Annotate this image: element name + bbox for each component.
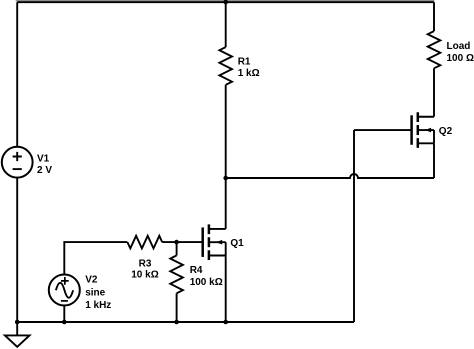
svg-text:Q1: Q1 (230, 238, 244, 249)
wire load bottom to Q2 drain (433, 68, 435, 116)
wire V1 to top rail (16, 2, 18, 147)
resistor R1 (219, 47, 232, 85)
source V1 (2, 147, 33, 178)
wire load top lead (433, 2, 435, 31)
svg-text:R3: R3 (139, 258, 152, 269)
wire Q1 source down (225, 256, 227, 323)
svg-text:R1: R1 (238, 57, 251, 68)
resistor R4 (170, 242, 183, 322)
label V1 2 V (37, 153, 52, 176)
source V2 (49, 275, 80, 306)
svg-text:V2: V2 (85, 275, 98, 286)
label R1 1 kOhm (238, 57, 260, 80)
label Load 100 Ohm (447, 41, 474, 64)
label R4 100 kOhm (190, 265, 223, 288)
junction dot Q1 source bottom (223, 320, 228, 325)
label R3 10 kOhm (131, 258, 158, 280)
junction dot V2 bottom (62, 320, 67, 325)
svg-text:1 kΩ: 1 kΩ (238, 68, 260, 79)
svg-text:10 kΩ: 10 kΩ (131, 269, 158, 280)
svg-text:sine: sine (85, 288, 105, 299)
wire V1 bottom (16, 178, 18, 322)
ground (5, 322, 30, 347)
wire V2 top to R3 (64, 242, 127, 274)
wire middle horizontal with hop (226, 174, 434, 178)
junction dot R4 bottom (174, 320, 179, 325)
svg-text:Q2: Q2 (439, 126, 453, 137)
wire R3 to Q1 gate (162, 241, 203, 243)
junction dot ground left (15, 320, 20, 325)
wire Q2 gate (354, 129, 412, 131)
svg-text:100 kΩ: 100 kΩ (190, 277, 223, 288)
wire R1 top lead (225, 2, 227, 47)
wire top rail (17, 1, 434, 3)
top edge grey band (16, 0, 435, 2)
resistor R3 (127, 236, 162, 249)
junction dot R4 top (174, 240, 179, 245)
svg-text:1 kHz: 1 kHz (85, 300, 111, 311)
resistor Load (428, 31, 441, 68)
transistor Q2 (412, 112, 434, 148)
wire Q2 source down (433, 143, 435, 178)
svg-text:Load: Load (447, 41, 471, 52)
svg-text:2 V: 2 V (37, 165, 52, 176)
svg-text:R4: R4 (190, 265, 203, 276)
wire V2 bottom (63, 306, 65, 323)
label V2 sine 1 kHz (85, 275, 111, 311)
wire Q2 gate to bottom rail (353, 130, 355, 322)
wire R1 bottom to Q1 drain (225, 85, 227, 229)
junction dot middle node (223, 176, 228, 181)
svg-text:100 Ω: 100 Ω (447, 53, 474, 64)
svg-text:V1: V1 (37, 153, 50, 164)
transistor Q1 (203, 224, 226, 260)
wire bottom rail (17, 321, 354, 323)
junction dot top node (223, 0, 228, 4)
